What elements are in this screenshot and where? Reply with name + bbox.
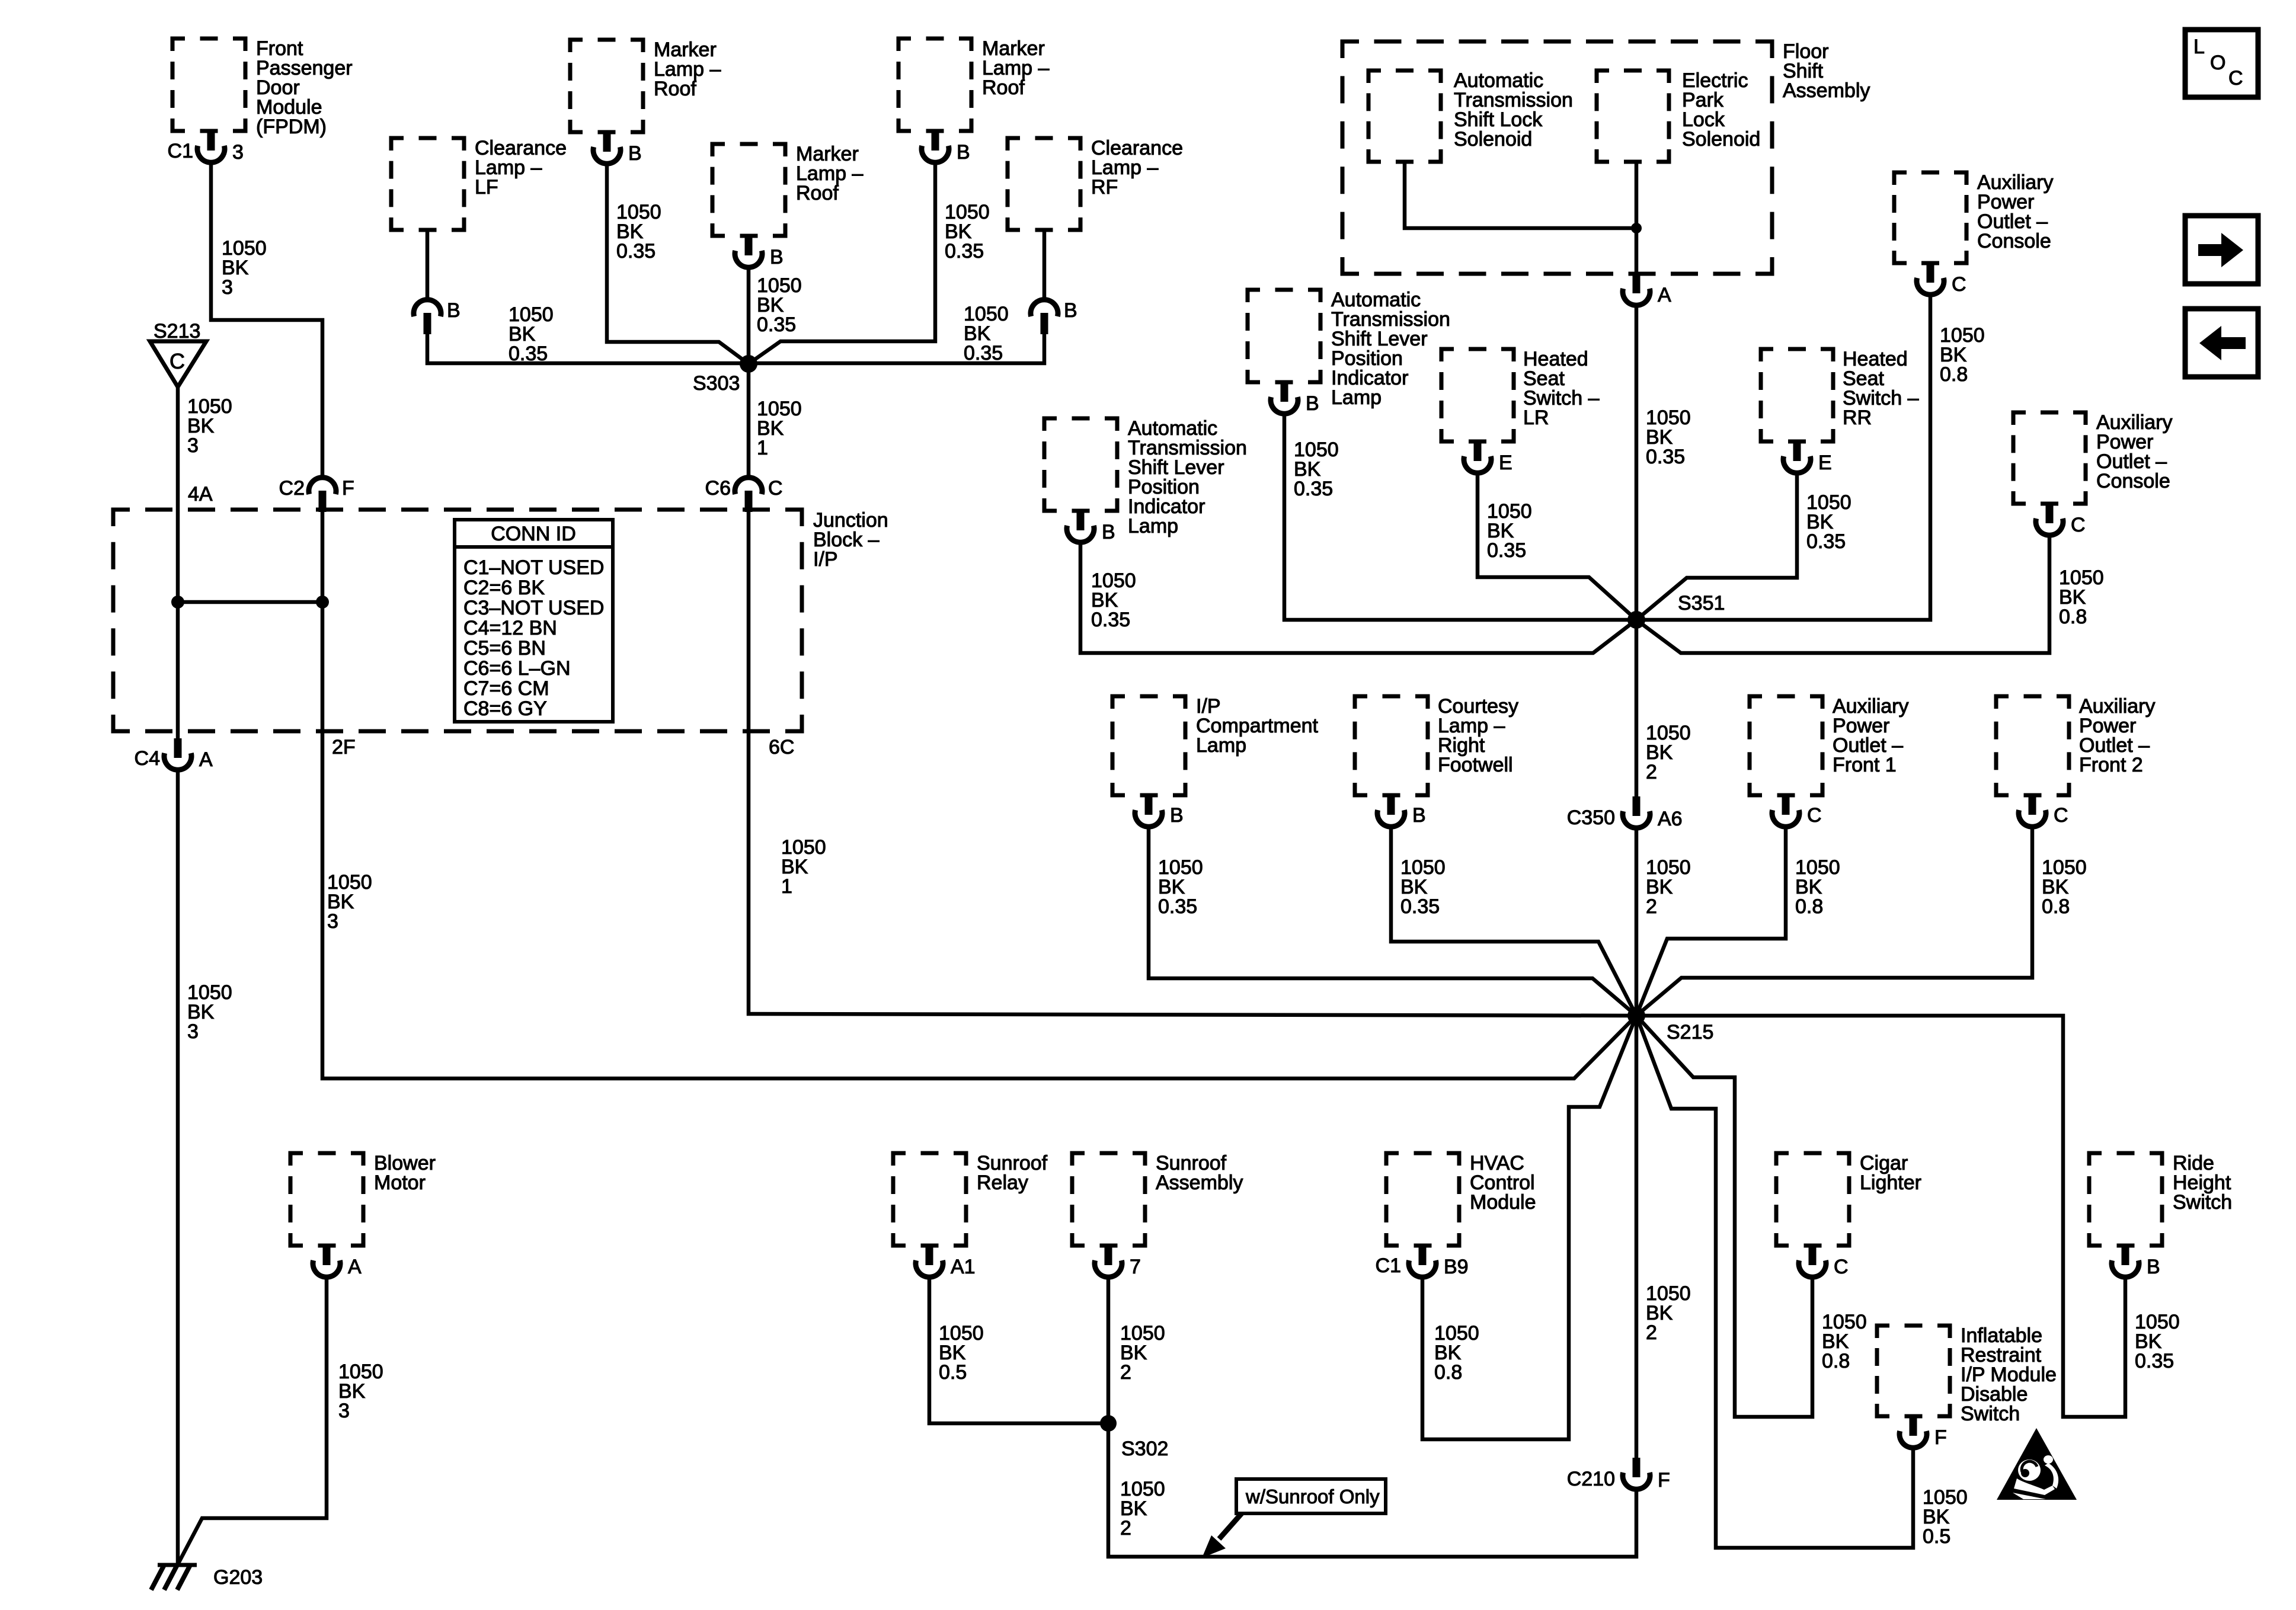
svg-text:1050BK0.35: 1050BK0.35	[945, 201, 990, 263]
wire from C210 to splice S302	[1108, 1423, 1636, 1557]
component Inflatable Restraint I/P Module Disable Switch	[1877, 1324, 2057, 1425]
label 1050 BK 2 below S302	[1120, 1478, 1165, 1539]
svg-text:S302: S302	[1121, 1438, 1168, 1460]
connector C4 pin A of junction block	[135, 738, 213, 771]
wire 1050 BK 3 from S213 to junction block 4A	[176, 387, 180, 740]
svg-text:1050BK0.35: 1050BK0.35	[964, 303, 1009, 364]
connector F of Inflatable Restraint Disable Switch	[1900, 1416, 1947, 1449]
svg-text:MarkerLamp –Roof: MarkerLamp –Roof	[982, 37, 1049, 99]
wire S215 to cigar lighter	[1636, 1016, 1812, 1417]
svg-text:1050BK2: 1050BK2	[1646, 1282, 1691, 1344]
connector C2 pin F of junction block	[279, 477, 354, 512]
wire 1050 BK 3 from Blower Motor to ground	[178, 1276, 327, 1564]
svg-text:AutomaticTransmissionShift Lev: AutomaticTransmissionShift LeverPosition…	[1331, 289, 1450, 409]
svg-text:1050BK2: 1050BK2	[1120, 1322, 1165, 1384]
svg-text:1050BK0.35: 1050BK0.35	[1294, 438, 1339, 500]
svg-text:1050BK3: 1050BK3	[187, 395, 232, 457]
connector B of Marker Lamp Roof middle	[735, 236, 784, 268]
component Heated Seat Switch - LR	[1441, 348, 1600, 441]
connector A of Floor Shift Assembly	[1623, 274, 1671, 306]
svg-text:O: O	[2210, 52, 2225, 74]
label 1050 BK 0.35 on ATSLP-left wire	[1091, 569, 1136, 631]
svg-text:B: B	[1102, 521, 1115, 543]
svg-text:B: B	[1412, 804, 1426, 827]
svg-text:CigarLighter: CigarLighter	[1860, 1152, 1921, 1194]
wire shift lock solenoid to internal junction	[1405, 162, 1636, 228]
wire 1050 BK 1 from S303 to junction block C6	[747, 364, 751, 476]
svg-text:4A: 4A	[188, 483, 213, 505]
label 1050 BK 1 on S303-C6 wire	[757, 398, 802, 459]
wire electric park lock solenoid down	[1635, 162, 1639, 274]
svg-text:CONN ID: CONN ID	[491, 523, 576, 545]
wire C6 through junction block to S215 bus	[749, 511, 1636, 1016]
svg-text:3: 3	[232, 141, 244, 164]
svg-text:S213: S213	[154, 320, 200, 343]
svg-text:F: F	[342, 477, 354, 500]
component Automatic Transmission Shift Lock Solenoid	[1368, 69, 1573, 162]
svg-text:C: C	[170, 349, 185, 373]
connector C350 pin A6 (inline)	[1567, 796, 1683, 830]
wire Aux Front 1 to S215	[1636, 825, 1786, 1016]
svg-text:C: C	[1834, 1256, 1849, 1278]
connector C of Aux Power Outlet Console upper	[1917, 263, 1966, 296]
svg-text:1050BK0.5: 1050BK0.5	[1923, 1486, 1968, 1548]
label 1050 BK 3 on blower wire	[338, 1361, 383, 1422]
svg-text:InflatableRestraintI/P ModuleD: InflatableRestraintI/P ModuleDisableSwit…	[1961, 1324, 2057, 1425]
svg-text:AuxiliaryPowerOutlet –Front 2: AuxiliaryPowerOutlet –Front 2	[2079, 695, 2155, 776]
junction dot left	[171, 596, 184, 609]
svg-text:S351: S351	[1678, 592, 1725, 614]
svg-text:1050BK0.8: 1050BK0.8	[1822, 1311, 1867, 1372]
legend LOC box	[2185, 30, 2258, 97]
svg-text:1050BK0.8: 1050BK0.8	[2059, 566, 2104, 628]
label 6C below junction block	[769, 736, 794, 758]
wire Aux Front 2 to S215	[1636, 825, 2032, 1016]
junction dot right	[316, 596, 329, 609]
component Floor Shift Assembly (outer)	[1342, 40, 1870, 274]
svg-text:A1: A1	[951, 1256, 976, 1278]
svg-text:1050BK2: 1050BK2	[1120, 1478, 1165, 1539]
junction dot inside floor shift assembly	[1631, 223, 1642, 233]
connector B of Courtesy Lamp	[1377, 795, 1426, 827]
svg-text:I/PCompartmentLamp: I/PCompartmentLamp	[1196, 695, 1319, 757]
svg-text:MarkerLamp –Roof: MarkerLamp –Roof	[654, 39, 721, 100]
svg-text:B: B	[1064, 299, 1077, 322]
svg-text:JunctionBlock –I/P: JunctionBlock –I/P	[813, 509, 888, 571]
wire Courtesy Lamp to S215	[1391, 825, 1636, 1016]
label 1050 BK 3 on 2F wire	[327, 871, 372, 933]
connector 7 of Sunroof Assembly	[1095, 1246, 1141, 1278]
svg-text:HeatedSeatSwitch –RR: HeatedSeatSwitch –RR	[1843, 348, 1919, 429]
connector C1 pin 3 of FPDM	[168, 131, 244, 164]
svg-text:C: C	[1952, 273, 1966, 296]
label 1050 BK 0.35 on courtesy wire	[1400, 856, 1446, 918]
svg-text:HeatedSeatSwitch –LR: HeatedSeatSwitch –LR	[1523, 348, 1600, 429]
svg-text:FloorShiftAssembly: FloorShiftAssembly	[1783, 40, 1870, 102]
svg-text:S215: S215	[1667, 1021, 1713, 1044]
wire 1050 BK 0.35 floor shift A to splice S351	[1635, 304, 1639, 620]
label 1050 BK 0.5 on relay wire	[939, 1322, 984, 1384]
svg-text:1050BK1: 1050BK1	[781, 836, 826, 898]
svg-text:A: A	[348, 1256, 362, 1278]
svg-text:1050BK1: 1050BK1	[757, 398, 802, 459]
wire 1050 BK 3 from FPDM C1 to junction block C2	[211, 161, 322, 476]
label 2F below junction block	[332, 736, 356, 758]
svg-text:1050BK3: 1050BK3	[187, 981, 232, 1043]
splice S351	[1627, 592, 1725, 629]
label 1050 BK 0.35 on LF wire	[509, 303, 554, 365]
label 1050 BK 0.35 on LR wire	[1487, 500, 1532, 562]
svg-text:FrontPassengerDoorModule(FPDM): FrontPassengerDoorModule(FPDM)	[256, 37, 353, 138]
svg-text:AuxiliaryPowerOutlet –Console: AuxiliaryPowerOutlet –Console	[1977, 171, 2053, 252]
wire Clearance RF to connector B	[1043, 230, 1047, 299]
svg-text:1050BK0.35: 1050BK0.35	[1158, 856, 1203, 918]
svg-text:1050BK0.35: 1050BK0.35	[1487, 500, 1532, 562]
svg-text:G203: G203	[213, 1566, 263, 1589]
svg-text:1050BK0.8: 1050BK0.8	[1940, 324, 1985, 386]
label 1050 BK 0.35 on I/P lamp wire	[1158, 856, 1203, 918]
label 1050 BK 0.35 on ATSLP-right wire	[1294, 438, 1339, 500]
svg-text:A: A	[199, 748, 213, 771]
wire Aux Console upper to S351	[1636, 293, 1930, 620]
svg-text:1050BK0.8: 1050BK0.8	[1434, 1322, 1479, 1384]
label 1050 BK 0.8 on HVAC wire	[1434, 1322, 1479, 1384]
component Marker Lamp - Roof (right)	[898, 37, 1049, 131]
connector C of Aux Power Outlet Front 1	[1772, 795, 1822, 827]
label 1050 BK 0.8 on cigar wire	[1822, 1311, 1867, 1372]
connector C of Aux Power Outlet Front 2	[2019, 795, 2068, 827]
component Sunroof Assembly	[1072, 1152, 1243, 1246]
svg-text:E: E	[1818, 452, 1832, 474]
svg-text:6C: 6C	[769, 736, 794, 758]
connector B of Marker Lamp Roof left	[593, 132, 642, 165]
svg-text:C4: C4	[135, 747, 160, 770]
svg-text:1050BK0.35: 1050BK0.35	[1646, 406, 1691, 468]
svg-text:A6: A6	[1658, 808, 1683, 830]
label 1050 BK 3 on FPDM wire	[222, 237, 267, 299]
svg-text:B: B	[1170, 804, 1184, 827]
connector A1 of Sunroof Relay	[916, 1246, 976, 1278]
label 1050 BK 2 below C350	[1646, 856, 1691, 918]
wire Marker Roof right to S303	[749, 161, 935, 364]
svg-text:C1: C1	[168, 140, 193, 162]
svg-text:ElectricParkLockSolenoid: ElectricParkLockSolenoid	[1682, 69, 1760, 151]
svg-text:B: B	[1306, 392, 1319, 415]
label 1050 BK 3 on C4 ground wire	[187, 981, 232, 1043]
component Automatic Transmission Shift Lever Position Indicator Lamp (left)	[1044, 417, 1247, 537]
label 1050 BK 0.8 on aux front 1 wire	[1795, 856, 1840, 918]
svg-text:1050BK0.5: 1050BK0.5	[939, 1322, 984, 1384]
connector C of Aux Power Outlet Console lower	[2036, 504, 2086, 536]
ground G203	[151, 1565, 263, 1590]
svg-text:C6: C6	[705, 477, 731, 500]
label 1050 BK 0.35 on marker-left wire	[616, 201, 661, 263]
label 1050 BK 0.35 on floor shift wire	[1646, 406, 1691, 468]
svg-text:F: F	[1934, 1426, 1947, 1449]
label 1050 BK 2 above C350	[1646, 722, 1691, 783]
label 1050 BK 0.5 on inflatable wire	[1923, 1486, 1968, 1548]
component Auxiliary Power Outlet - Front 2	[1996, 695, 2155, 795]
wire Marker Roof left to S303	[607, 162, 749, 364]
component Electric Park Lock Solenoid	[1597, 69, 1760, 162]
CONN ID table of junction block	[455, 520, 613, 722]
svg-text:C: C	[2228, 67, 2243, 89]
splice S302	[1100, 1415, 1168, 1460]
label 1050 BK 0.35 on RF wire	[964, 303, 1009, 364]
connector C210 pin F (inline)	[1567, 1458, 1670, 1491]
svg-text:MarkerLamp –Roof: MarkerLamp –Roof	[796, 143, 863, 204]
component Auxiliary Power Outlet - Console (lower)	[2013, 411, 2172, 504]
svg-text:1050BK0.35: 1050BK0.35	[1091, 569, 1136, 631]
component Marker Lamp - Roof (left)	[570, 39, 721, 132]
node S213 off-page triangle C	[150, 320, 206, 387]
svg-text:AuxiliaryPowerOutlet –Front 1: AuxiliaryPowerOutlet –Front 1	[1833, 695, 1908, 776]
svg-text:1050BK3: 1050BK3	[338, 1361, 383, 1422]
svg-text:B: B	[2147, 1256, 2160, 1278]
svg-text:C: C	[1807, 804, 1822, 827]
wire C2 through junction block to S215 bus	[322, 511, 1636, 1078]
svg-text:SunroofRelay: SunroofRelay	[977, 1152, 1048, 1194]
svg-text:F: F	[1658, 1469, 1670, 1491]
connector B of Ride Height Switch	[2112, 1246, 2160, 1278]
wire Aux Console lower to S351	[1636, 534, 2049, 653]
wire 1050 BK 0.5 Sunroof Relay to S302	[929, 1276, 1108, 1423]
svg-text:B: B	[957, 141, 970, 164]
label 1050 BK 0.35 on marker-middle wire	[757, 274, 802, 336]
svg-text:1050BK0.35: 1050BK0.35	[1806, 491, 1851, 553]
svg-text:ClearanceLamp –RF: ClearanceLamp –RF	[1091, 137, 1183, 199]
svg-text:BlowerMotor: BlowerMotor	[374, 1152, 436, 1194]
wire ATSLP right lamp to S351	[1284, 412, 1636, 620]
connector C1 pin B9 of HVAC Control Module	[1376, 1246, 1469, 1278]
svg-text:1050BK2: 1050BK2	[1646, 722, 1691, 783]
wire Clearance LF to connector B	[426, 230, 430, 299]
svg-text:L: L	[2193, 36, 2205, 58]
svg-text:C: C	[2071, 514, 2086, 536]
connector B of Clearance Lamp LF (inline)	[414, 299, 461, 334]
wire S215 to inflatable restraint disable switch	[1636, 1016, 1913, 1548]
svg-text:C350: C350	[1567, 806, 1615, 829]
connector B of ATSLP indicator lamp left	[1067, 511, 1115, 543]
wire 1050 BK 3 from C4 to ground G203	[176, 769, 180, 1564]
connector E of Heated Seat Switch LR	[1464, 441, 1512, 474]
component Auxiliary Power Outlet - Front 1	[1750, 695, 1908, 795]
connector B of ATSLP indicator lamp right	[1271, 382, 1319, 415]
wire Clearance LF B to splice S303	[427, 334, 749, 363]
svg-text:B9: B9	[1444, 1256, 1469, 1278]
connector C6 pin C of junction block	[705, 477, 783, 512]
connector E of Heated Seat Switch RR	[1783, 441, 1832, 474]
label 4A at junction block entry	[188, 483, 213, 505]
component Blower Motor	[290, 1152, 436, 1246]
wire 1050 BK 2 Sunroof Assembly to S302	[1107, 1276, 1111, 1423]
component Ride Height Switch	[2089, 1152, 2232, 1246]
legend left-arrow box	[2185, 309, 2258, 377]
svg-text:AutomaticTransmissionShift Lev: AutomaticTransmissionShift LeverPosition…	[1128, 417, 1247, 537]
label 1050 BK 2 on assembly wire	[1120, 1322, 1165, 1384]
splice S303	[693, 355, 757, 395]
svg-text:E: E	[1499, 452, 1512, 474]
svg-text:1050BK0.8: 1050BK0.8	[1795, 856, 1840, 918]
svg-text:1050BK0.35: 1050BK0.35	[509, 303, 554, 365]
svg-text:RideHeightSwitch: RideHeightSwitch	[2173, 1152, 2232, 1214]
label 1050 BK 0.8 on console-upper wire	[1940, 324, 1985, 386]
svg-text:C210: C210	[1567, 1468, 1615, 1490]
label 1050 BK 0.35 on ride height wire	[2135, 1311, 2180, 1372]
wire ATSLP left lamp to S351	[1080, 541, 1636, 653]
label 1050 BK 0.35 on marker-right wire	[945, 201, 990, 263]
component Junction Block - I/P	[113, 509, 888, 731]
component Clearance Lamp - LF	[391, 137, 567, 230]
label 1050 BK 0.8 on aux front 2 wire	[2042, 856, 2087, 918]
svg-text:B: B	[447, 299, 461, 322]
svg-text:1050BK3: 1050BK3	[327, 871, 372, 933]
wire 1050 BK 2 from S351 to C350	[1635, 620, 1639, 796]
wire Heated Seat LR to S351	[1478, 472, 1636, 620]
svg-text:1050BK0.35: 1050BK0.35	[616, 201, 661, 263]
svg-text:C1: C1	[1376, 1254, 1401, 1277]
connector B of Marker Lamp Roof right	[922, 131, 970, 164]
label 1050 BK 1 on 6C wire	[781, 836, 826, 898]
connector A of Blower Motor	[313, 1246, 362, 1278]
svg-text:C: C	[2054, 804, 2068, 827]
svg-text:ClearanceLamp –LF: ClearanceLamp –LF	[475, 137, 567, 199]
splice S215	[1627, 1007, 1713, 1044]
component Automatic Transmission Shift Lever Position Indicator Lamp (right)	[1248, 289, 1450, 409]
wire 1050 BK 2 from C350 to splice S215	[1635, 827, 1639, 1016]
component HVAC Control Module	[1386, 1152, 1536, 1246]
component Marker Lamp - Roof (middle)	[712, 143, 863, 236]
wire I/P Compartment Lamp to S215	[1149, 825, 1636, 1016]
wire Clearance RF B to splice S303	[749, 334, 1044, 363]
wire S215 right bus to ride height switch	[1636, 1016, 2125, 1417]
svg-text:HVACControlModule: HVACControlModule	[1470, 1152, 1536, 1214]
svg-text:A: A	[1658, 284, 1671, 306]
svg-text:2F: 2F	[332, 736, 356, 758]
svg-text:C1–NOT USEDC2=6 BKC3–NOT USEDC: C1–NOT USEDC2=6 BKC3–NOT USEDC4=12 BNC5=…	[463, 556, 604, 720]
svg-text:1050BK2: 1050BK2	[1646, 856, 1691, 918]
svg-text:w/Sunroof Only: w/Sunroof Only	[1245, 1486, 1380, 1507]
svg-text:AuxiliaryPowerOutlet –Console: AuxiliaryPowerOutlet –Console	[2096, 411, 2172, 492]
svg-text:C2: C2	[279, 477, 305, 500]
connector B of Clearance Lamp RF (inline)	[1031, 299, 1077, 334]
connector C of Cigar Lighter	[1799, 1246, 1849, 1278]
svg-text:1050BK0.35: 1050BK0.35	[2135, 1311, 2180, 1372]
svg-text:CourtesyLamp –RightFootwell: CourtesyLamp –RightFootwell	[1438, 695, 1518, 776]
svg-text:C: C	[768, 477, 783, 500]
svg-text:1050BK0.35: 1050BK0.35	[757, 274, 802, 336]
svg-text:B: B	[628, 142, 642, 165]
component Sunroof Relay	[893, 1152, 1048, 1246]
svg-text:7: 7	[1130, 1256, 1141, 1278]
wire internal junction-block bus	[178, 600, 322, 604]
label w/Sunroof Only callout with arrow	[1202, 1479, 1386, 1558]
wire S215 to HVAC control module	[1422, 1016, 1636, 1439]
component Cigar Lighter	[1776, 1152, 1921, 1246]
wire Heated Seat RR to S351	[1636, 472, 1797, 620]
svg-text:1050BK3: 1050BK3	[222, 237, 267, 299]
component Front Passenger Door Module (FPDM)	[172, 37, 353, 138]
legend right-arrow box	[2185, 216, 2258, 284]
label 1050 BK 2 above C210	[1646, 1282, 1691, 1344]
component Heated Seat Switch - RR	[1761, 348, 1919, 441]
svg-text:B: B	[770, 246, 784, 268]
component I/P Compartment Lamp	[1112, 695, 1319, 795]
svg-text:1050BK0.35: 1050BK0.35	[1400, 856, 1446, 918]
wire 1050 BK 2 from S215 to C210	[1635, 1016, 1639, 1458]
svg-text:SunroofAssembly: SunroofAssembly	[1156, 1152, 1243, 1194]
connector B of I/P Compartment Lamp	[1135, 795, 1184, 827]
component Clearance Lamp - RF	[1008, 137, 1183, 230]
svg-text:1050BK0.8: 1050BK0.8	[2042, 856, 2087, 918]
wire Marker Roof middle to S303	[747, 266, 751, 364]
component Courtesy Lamp - Right Footwell	[1355, 695, 1518, 795]
svg-text:S303: S303	[693, 372, 740, 395]
component Auxiliary Power Outlet - Console (upper)	[1894, 171, 2053, 263]
warning triangle SIR symbol	[1997, 1428, 2077, 1500]
label 1050 BK 0.35 on RR wire	[1806, 491, 1851, 553]
label 1050 BK 0.8 on console-lower wire	[2059, 566, 2104, 628]
label 1050 BK 3 on S213 wire	[187, 395, 232, 457]
svg-text:AutomaticTransmissionShift Loc: AutomaticTransmissionShift LockSolenoid	[1454, 69, 1573, 151]
